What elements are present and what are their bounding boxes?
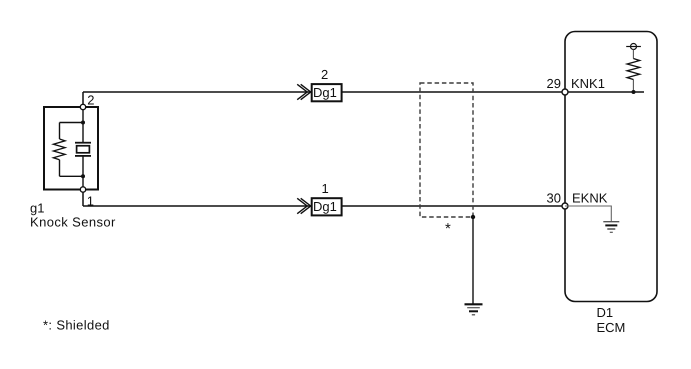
wire pullup leads — [632, 50, 634, 93]
terminal 1 circle — [80, 187, 85, 192]
svg-text:KNK1: KNK1 — [571, 76, 605, 91]
svg-text:*: * — [445, 221, 451, 238]
wire shield drain — [472, 217, 474, 304]
terminal pin 29 — [562, 89, 568, 95]
svg-text:30: 30 — [547, 191, 561, 206]
terminal pin 30 — [562, 203, 568, 209]
wire sensor left leads — [59, 123, 61, 177]
svg-text:1: 1 — [322, 181, 329, 196]
ECM D1 body — [565, 32, 657, 302]
svg-text:1: 1 — [87, 194, 94, 209]
connector box Dg1 top — [312, 84, 342, 101]
knock sensor g1 body — [44, 107, 98, 190]
wire EKNK bottom — [83, 205, 565, 207]
svg-text:29: 29 — [547, 76, 561, 91]
shield dashed box — [420, 83, 473, 217]
svg-text:Dg1: Dg1 — [313, 199, 337, 214]
wire sensor branch top — [60, 122, 84, 124]
connector chevrons bottom (Dg1) — [297, 198, 311, 213]
svg-text:ECM: ECM — [597, 320, 626, 335]
resistor (ECM pullup) — [627, 59, 640, 80]
ground shield — [465, 304, 483, 315]
connector box Dg1 bottom — [312, 198, 342, 215]
svg-text:D1: D1 — [597, 305, 614, 320]
wire sensor branch bottom — [60, 175, 84, 177]
terminal 2 circle — [80, 104, 85, 109]
wire stub terminal 1 — [82, 192, 84, 206]
wire sensor inner vertical — [82, 110, 84, 187]
node sensor bottom — [81, 174, 85, 178]
ground EKNK (ECM internal) — [603, 222, 619, 233]
svg-text:Dg1: Dg1 — [313, 85, 337, 100]
svg-text:2: 2 — [321, 67, 328, 82]
wire KNK1 top — [83, 91, 644, 93]
svg-text:Knock Sensor: Knock Sensor — [30, 214, 116, 229]
node KNK1 internal — [632, 90, 636, 94]
wire EKNK internal — [565, 206, 611, 221]
wire through pullup circle — [626, 46, 641, 48]
pullup terminal circle (ECM internal) — [631, 44, 637, 50]
svg-text:2: 2 — [87, 92, 94, 107]
svg-text:*: Shielded: *: Shielded — [43, 318, 110, 333]
connector chevrons top (Dg1) — [297, 84, 311, 99]
node sensor top — [81, 121, 85, 125]
piezo element (sensor internal) — [75, 143, 91, 156]
svg-text:EKNK: EKNK — [572, 191, 608, 206]
resistor (sensor internal) — [53, 139, 65, 160]
wire stub terminal 2 — [82, 92, 84, 104]
node shield junction — [471, 215, 475, 219]
svg-text:g1: g1 — [30, 201, 44, 216]
